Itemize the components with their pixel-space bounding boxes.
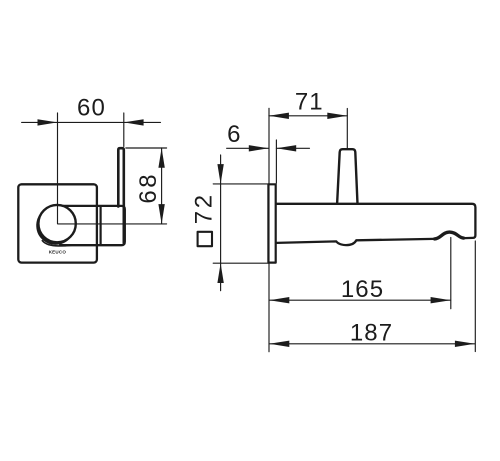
front view: wall plate (rounded square escutcheon) [18,184,97,262]
dimension 6: right dimension line with left-pointing arrowhead [276,147,309,149]
svg-text:60: 60 [77,95,106,122]
dimension 165: dimension line [269,299,450,301]
dimension 68: up arrowhead [158,148,164,168]
dimension 68: dimension line [161,148,163,224]
dimension 187: extension line (spout tip) [474,241,476,352]
dimension 71: dimension line [269,115,347,117]
svg-text:72: 72 [190,192,217,224]
dimension 68: extension line top [126,147,167,149]
dimension 187: right arrowhead [455,341,475,347]
side view: wall plane extension line [268,108,270,351]
front view: lever arm horizontal body [60,206,125,245]
dimension 72: extension line bottom [213,262,269,264]
dimension 60: right arrowhead [124,119,144,125]
dimension 72: down arrowhead (above) [217,164,223,184]
dimension 60: left arrowhead [38,119,58,125]
side view: spout body outline [277,204,476,245]
front view: knob base arc [42,241,71,246]
svg-text:71: 71 [295,89,324,116]
dimension 165: left arrowhead [269,297,289,303]
front view: lever grip vertical bar [118,148,124,243]
front view: lever arm neck line at plate edge [99,207,101,244]
dimension 72: extension line top [213,183,269,185]
dimension 6: left dimension line with right-pointing arrowhead [227,147,269,149]
dimension 187: dimension line [269,343,475,345]
dimension 165: right arrowhead [431,297,451,303]
dimension 60: extension line left (through knob centre) [57,113,59,224]
dimension 6: extension line right of plate [275,140,277,183]
svg-text:KEUCO: KEUCO [49,249,67,254]
dimension 60: dimension line [22,121,161,123]
svg-text:187: 187 [350,320,393,347]
label KEUCO on escutcheon [49,249,67,254]
dimension 68: extension line bottom (knob centre line) [58,223,167,225]
dimension 60: extension line right [123,113,125,147]
front view: knob offset crescent (filled) [37,212,72,245]
svg-text:165: 165 [341,276,384,303]
front view: knob outer circle [38,205,75,242]
svg-text:68: 68 [135,172,162,204]
dimension 71: right arrowhead [327,113,347,119]
dimension 165: extension line (aerator centre) [450,238,452,309]
dimension 187: left arrowhead [269,341,289,347]
dimension 71: left arrowhead [269,113,289,119]
side view: wall plate (6 mm) [268,184,275,262]
dimension 68: down arrowhead [158,204,164,224]
side view: handle (tapered lever) [337,149,357,204]
dimension 72: dimension line [220,155,222,291]
dimension 71: extension line right (handle centre) [346,109,348,149]
dimension 72: square symbol [198,232,212,246]
side view: aerator rim thick arc [435,232,464,239]
svg-text:6: 6 [227,121,241,148]
dimension 72: up arrowhead (below) [217,263,223,283]
